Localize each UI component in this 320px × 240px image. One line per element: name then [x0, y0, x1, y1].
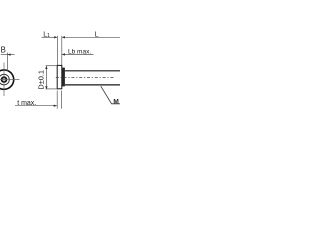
svg-text:B: B	[1, 46, 6, 55]
dimension D top extension line	[46, 65, 58, 67]
svg-text:L: L	[95, 31, 99, 38]
dimension t left extension line	[56, 91, 58, 109]
dimension t arrowhead	[54, 105, 57, 107]
shaft top line	[65, 70, 121, 72]
svg-text:M: M	[113, 98, 118, 105]
dimension Lb arrowhead	[62, 53, 65, 55]
dimension B extension line	[6, 53, 8, 72]
dimension D line	[45, 66, 47, 89]
shaft bottom line	[65, 84, 121, 86]
dimension B arrowhead	[7, 53, 10, 55]
front view vertical centerline	[3, 63, 5, 97]
dimension L1 arrowhead	[54, 36, 57, 38]
front view middle circle (socket chamfer)	[0, 74, 9, 85]
side view knurled collar (dark bar)	[62, 68, 65, 87]
front view outer circle (head diameter D)	[0, 70, 14, 89]
dimension L extension line (under head)	[61, 36, 63, 68]
dimension B leader line	[1, 54, 15, 56]
dimension t leader line	[15, 105, 57, 107]
shaft dash-dot centerline	[56, 77, 115, 79]
dimension D bottom arrowhead	[45, 86, 47, 89]
thread callout leader line	[101, 86, 121, 104]
dimension t right extension line	[60, 91, 62, 109]
dimension D top arrowhead	[45, 66, 47, 69]
dimension L1 extension line (head left face)	[56, 36, 58, 65]
svg-text:D±0.1: D±0.1	[37, 70, 46, 90]
dimension L arrowhead	[62, 36, 65, 38]
dimension L1 line	[42, 36, 58, 38]
svg-text:Lb max.: Lb max.	[68, 48, 91, 55]
dimension L line	[62, 36, 121, 38]
side view head rectangle	[57, 65, 62, 88]
front view hex socket ring	[2, 77, 7, 82]
dimension Lb leader line	[62, 53, 94, 55]
front view horizontal centerline	[0, 79, 19, 81]
svg-text:L1: L1	[43, 31, 50, 39]
svg-text:t max.: t max.	[17, 100, 36, 107]
dimension D bottom extension line	[46, 88, 58, 90]
